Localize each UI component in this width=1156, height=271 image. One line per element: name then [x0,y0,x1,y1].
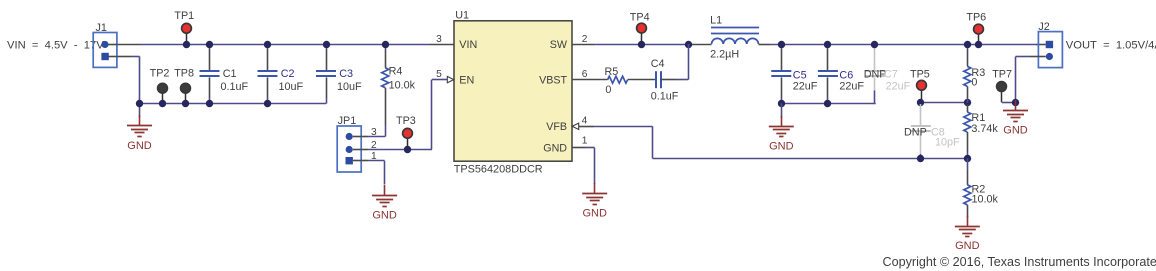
svg-text:GND: GND [769,140,794,152]
svg-text:TP7: TP7 [992,68,1012,80]
resistor R1 [967,105,969,113]
svg-text:TP4: TP4 [630,12,650,24]
wire C4 to SW node [661,79,676,81]
wire J1 pin2 to ground bus [131,56,140,58]
svg-text:1: 1 [582,136,588,147]
ground GND JP1 [384,185,386,196]
svg-text:0.1uF: 0.1uF [651,91,679,103]
capacitor C7 (DNP) [874,46,876,70]
svg-text:4: 4 [582,115,588,126]
svg-text:TP5: TP5 [910,69,930,81]
svg-text:22uF: 22uF [839,81,864,93]
svg-text:R4: R4 [389,66,403,78]
wire J1 pin1 stub [117,44,140,46]
svg-text:SW: SW [550,39,568,51]
wire SW pin stub [572,44,595,46]
svg-text:J2: J2 [1038,21,1049,33]
wire JP1 pin3 to R4 [361,136,368,138]
svg-text:10uF: 10uF [279,81,304,93]
connector J2 pin 1 [1046,41,1053,48]
wire VIN top rail [140,44,430,46]
svg-text:3: 3 [436,34,442,45]
svg-text:GND: GND [955,240,980,252]
svg-text:VIN: VIN [459,39,477,51]
wire SW node rail [595,44,688,46]
svg-text:TP6: TP6 [966,11,986,23]
wire VOUT rail to J2 stub [1036,44,1046,46]
svg-text:10.0k: 10.0k [389,80,416,92]
connector J2 pin 2 [1046,53,1053,60]
svg-text:10pF: 10pF [935,136,960,148]
svg-text:C3: C3 [339,68,353,80]
svg-text:C4: C4 [651,58,665,70]
connector JP1 pin 1 [346,157,353,164]
node junction J1/GND [136,100,143,107]
resistor R5 [608,76,628,83]
resistor R4 [385,44,387,50]
svg-text:GND: GND [127,140,152,152]
svg-text:2: 2 [582,34,588,45]
wire J2 pin2 to ground [1030,56,1046,58]
wire R5 to C4 [628,79,656,81]
svg-text:TP1: TP1 [174,10,194,22]
resistor R3 [967,44,969,50]
capacitor C2 [267,44,269,50]
wire VFB net [579,126,594,128]
svg-text:TPS564208DDCR: TPS564208DDCR [454,163,543,175]
capacitor C1 [209,44,211,50]
svg-text:C1: C1 [223,68,237,80]
svg-text:0: 0 [605,84,611,96]
svg-text:TP2: TP2 [150,67,170,79]
wire left ground bus [140,103,327,105]
svg-text:R5: R5 [605,66,619,78]
wire L1 to VOUT rail [759,44,771,46]
wire SW node to L1 lead [688,44,711,46]
svg-text:22uF: 22uF [886,81,911,93]
svg-text:VOUT = 1.05V/4A: VOUT = 1.05V/4A [1066,40,1156,52]
svg-text:C2: C2 [281,68,295,80]
ground GND R2 [967,216,969,227]
svg-text:VBST: VBST [539,74,567,86]
capacitor C4 [655,71,657,88]
pin VFB arrow [572,123,579,129]
wire right ground bus [781,103,875,105]
svg-text:0.1uF: 0.1uF [221,81,249,93]
svg-text:0: 0 [971,77,977,89]
capacitor C3 [326,44,328,50]
wire VOUT top rail [770,44,1036,46]
capacitor C5 [781,44,783,50]
svg-text:GND: GND [372,210,397,222]
resistor R2 [967,158,969,170]
connector J2 [1038,32,1062,68]
connector JP1 pin 2 [346,146,353,153]
connector J1 [93,33,117,68]
connector JP1 pin 3 [346,133,353,140]
svg-text:J1: J1 [96,22,107,34]
capacitor C8 (DNP) [920,104,922,125]
node junction TP1 [183,41,190,48]
ground GND U1 [594,183,596,194]
svg-text:GND: GND [543,143,567,155]
ground GND1 [139,104,141,118]
svg-text:C6: C6 [839,69,853,81]
op-amp U1 TPS564208DDCR body [454,21,572,161]
svg-text:L1: L1 [710,15,722,27]
wire VBST pin stub [572,79,608,81]
wire VIN rail to chip pin stub [429,44,454,46]
node junction TP7/J2 [1012,99,1019,106]
svg-text:10.0k: 10.0k [972,194,999,206]
node junction TP4 [638,41,645,48]
svg-text:Copyright © 2016, Texas Instru: Copyright © 2016, Texas Instruments Inco… [883,255,1156,269]
svg-text:VIN = 4.5V - 17V: VIN = 4.5V - 17V [7,39,104,51]
svg-text:3.74k: 3.74k [971,123,998,135]
wire chip GND pin to ground [572,147,585,149]
svg-text:VFB: VFB [546,121,567,133]
capacitor C6 [827,44,829,50]
wire JP1 pin2 to EN [361,149,368,151]
svg-text:22uF: 22uF [793,81,818,93]
pin EN input arrow [447,76,454,82]
wire J1 pin2 stub [117,56,131,58]
svg-text:U1: U1 [455,10,469,22]
ground GND C5 bank [781,103,783,118]
wire TP5 to R3 bottom [921,102,968,104]
svg-text:6: 6 [582,69,588,80]
ground GND J2 [1015,100,1017,111]
node junction TP3 [404,146,411,153]
connector J1 pin 1 [109,44,117,46]
wire JP1 pin1 to ground [361,160,368,162]
svg-text:TP3: TP3 [396,115,416,127]
connector J1 pin 2 [109,56,117,58]
svg-text:TP8: TP8 [174,67,194,79]
svg-text:C7: C7 [884,69,898,81]
svg-text:JP1: JP1 [338,115,357,127]
svg-text:2.2µH: 2.2µH [710,49,739,61]
node junction SW/C4 [685,41,692,48]
svg-text:C5: C5 [793,69,807,81]
connector JP1 [337,126,361,172]
svg-text:GND: GND [582,208,607,220]
svg-text:GND: GND [1003,125,1028,137]
svg-text:5: 5 [436,69,442,80]
svg-text:EN: EN [459,74,474,86]
svg-text:DNP: DNP [904,126,927,138]
svg-text:10uF: 10uF [337,81,362,93]
